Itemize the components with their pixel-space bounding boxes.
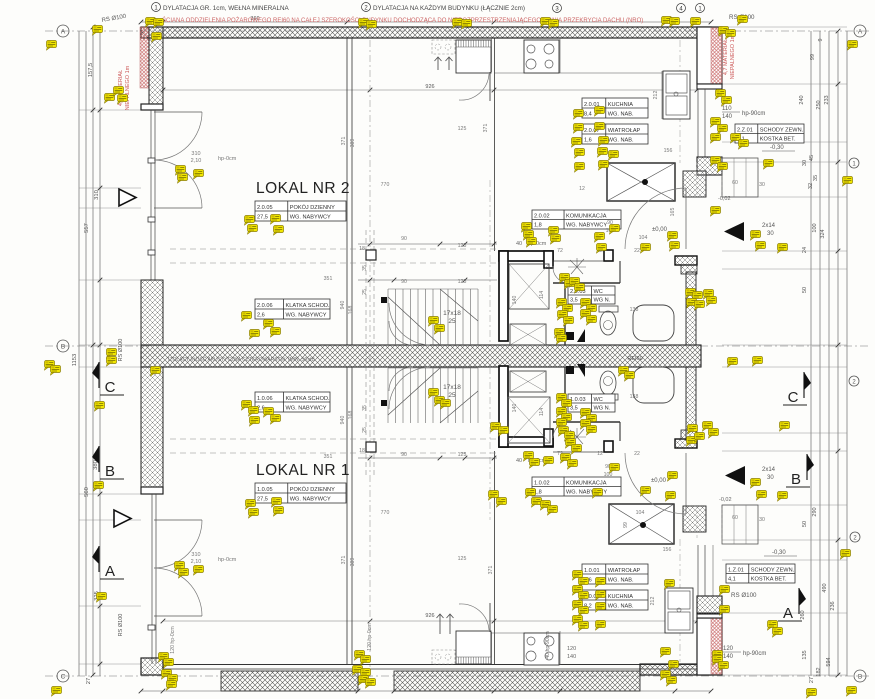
svg-text:770: 770 — [381, 510, 390, 516]
svg-text:27: 27 — [86, 678, 92, 684]
svg-text:WG. NABYWCY: WG. NABYWCY — [290, 215, 331, 221]
terrace hatch left — [221, 671, 358, 691]
svg-text:324: 324 — [820, 229, 826, 238]
right dimension lines — [810, 31, 812, 676]
svg-text:A: A — [105, 563, 115, 580]
svg-text:±0,00: ±0,00 — [651, 478, 667, 484]
svg-text:940: 940 — [340, 416, 346, 425]
entry door arc bottom — [625, 453, 686, 514]
svg-text:2.0.05: 2.0.05 — [257, 205, 273, 211]
svg-text:114: 114 — [539, 408, 545, 416]
section letter A left — [98, 546, 100, 572]
svg-text:17x18: 17x18 — [443, 384, 461, 391]
svg-text:125: 125 — [458, 126, 467, 132]
right wall block mid top — [697, 157, 722, 175]
svg-text:30: 30 — [759, 182, 765, 188]
stairs top winder — [389, 303, 430, 345]
dim line 926 top — [163, 89, 697, 91]
shaft xsquare top A — [509, 264, 549, 309]
svg-text:182: 182 — [816, 667, 822, 676]
bottom exterior wall thin — [163, 664, 711, 666]
left wall window top — [150, 110, 152, 280]
room label 2.0.07 wiatrolap — [582, 124, 648, 144]
dim line 926 bottom — [163, 620, 697, 622]
svg-text:157,5: 157,5 — [88, 63, 94, 78]
svg-text:DYLATACJA GR. 1cm, WEŁNA MINER: DYLATACJA GR. 1cm, WEŁNA MINERALNA — [163, 5, 290, 12]
svg-text:140: 140 — [722, 114, 733, 120]
svg-text:926: 926 — [425, 613, 434, 619]
svg-text:371: 371 — [483, 124, 489, 133]
svg-text:B: B — [61, 344, 65, 351]
window mullion b — [148, 625, 155, 630]
stair wall pier bottom — [604, 441, 613, 452]
door arc bottom center — [459, 604, 489, 630]
toilet top — [599, 306, 618, 312]
grid bubble A left — [57, 25, 69, 37]
sink bottom — [665, 588, 693, 633]
room label 1.0.02 komunikacja — [532, 477, 621, 496]
svg-text:371: 371 — [341, 137, 347, 146]
svg-text:594: 594 — [826, 657, 832, 666]
svg-text:C: C — [105, 379, 116, 396]
svg-text:27: 27 — [809, 677, 815, 683]
chimney bottom — [609, 504, 674, 544]
svg-text:490: 490 — [822, 583, 828, 592]
svg-text:25: 25 — [448, 392, 456, 399]
stairs bottom cut — [388, 368, 478, 423]
room label 2.0.03 wc — [568, 286, 615, 304]
right wall block bottom — [697, 618, 722, 675]
terrace hatch right — [394, 671, 640, 691]
svg-text:140: 140 — [512, 404, 518, 413]
svg-text:KOSTKA BET.: KOSTKA BET. — [760, 137, 796, 143]
shaft xsquare bottom A — [508, 397, 550, 443]
svg-text:±0,00: ±0,00 — [652, 227, 668, 233]
svg-text:NIEPALNEGO 1m: NIEPALNEGO 1m — [125, 65, 131, 110]
svg-text:35: 35 — [362, 405, 368, 411]
svg-text:1.0.03: 1.0.03 — [570, 397, 586, 403]
svg-text:138: 138 — [630, 394, 639, 400]
svg-text:90: 90 — [401, 279, 407, 285]
svg-text:770: 770 — [381, 182, 390, 188]
window mullion — [148, 158, 155, 163]
top exterior wall — [141, 27, 711, 38]
svg-text:240: 240 — [799, 95, 805, 104]
svg-text:2x14: 2x14 — [762, 467, 776, 473]
svg-text:27,5: 27,5 — [257, 497, 268, 503]
svg-text:25: 25 — [362, 289, 368, 295]
svg-text:35: 35 — [362, 265, 368, 271]
door arc bottom-left upper — [154, 520, 202, 568]
tub top — [633, 305, 674, 341]
svg-text:2,10: 2,10 — [191, 158, 202, 164]
svg-text:12: 12 — [579, 186, 585, 192]
bath wall top — [675, 256, 697, 265]
svg-text:KLATKA SCHOD.: KLATKA SCHOD. — [286, 303, 330, 309]
svg-text:30: 30 — [802, 160, 808, 166]
svg-text:SCHODY ZEWN.: SCHODY ZEWN. — [760, 128, 804, 134]
svg-text:POKÓJ DZIENNY: POKÓJ DZIENNY — [290, 204, 335, 211]
svg-text:POKÓJ DZIENNY: POKÓJ DZIENNY — [290, 486, 335, 493]
svg-text:371: 371 — [341, 556, 347, 565]
room label 1.0.07 kuchnia — [582, 590, 648, 610]
grid line C dashed — [45, 675, 870, 677]
svg-text:940: 940 — [340, 301, 346, 310]
right wall insulation bottom — [711, 618, 722, 674]
room label 2.0.05 pokoj dzienny — [255, 201, 346, 221]
grid bubble C left — [57, 670, 69, 682]
svg-text:-0,30: -0,30 — [770, 145, 784, 151]
section letter C right — [803, 372, 805, 398]
svg-text:WC: WC — [594, 397, 603, 403]
note 3 circle — [553, 4, 562, 13]
svg-text:212: 212 — [653, 91, 659, 100]
right extension lines — [722, 26, 847, 28]
plant bottom — [568, 428, 586, 444]
room label 2.0.02 komunikacja — [532, 210, 621, 229]
svg-text:18: 18 — [359, 448, 365, 454]
svg-text:140: 140 — [567, 654, 576, 660]
tub bottom — [633, 367, 674, 403]
svg-text:B: B — [791, 471, 801, 488]
stair sq marker bottom — [366, 442, 376, 452]
grid bubble A right — [854, 25, 866, 37]
stair column top — [381, 297, 387, 303]
svg-text:KUCHNIA: KUCHNIA — [608, 102, 633, 108]
yellow note markers — [146, 18, 156, 28]
hob top — [524, 40, 559, 73]
wc walls top — [553, 282, 620, 284]
svg-text:250: 250 — [816, 100, 822, 109]
grid line B dashed — [45, 345, 150, 347]
bath hatch right bottom — [686, 367, 696, 440]
skylight box top — [432, 40, 455, 54]
svg-text:9: 9 — [818, 38, 824, 41]
svg-text:125: 125 — [458, 556, 467, 562]
left dimension lines — [78, 31, 80, 676]
svg-text:LOKAL NR 2: LOKAL NR 2 — [256, 180, 350, 197]
svg-text:30: 30 — [759, 517, 765, 523]
left wall corner bottom — [141, 658, 163, 675]
svg-text:WG N.: WG N. — [594, 406, 611, 412]
right wall window top — [697, 89, 699, 157]
svg-text:SCHODY ZEWN.: SCHODY ZEWN. — [751, 568, 795, 574]
kitchen partition top — [494, 38, 496, 251]
svg-text:4,1: 4,1 — [728, 577, 736, 583]
svg-text:125: 125 — [458, 243, 467, 249]
section triangle open left bottom — [114, 510, 131, 527]
svg-text:30: 30 — [767, 475, 774, 481]
svg-text:140: 140 — [723, 654, 734, 660]
svg-text:WG. NABYWCY: WG. NABYWCY — [286, 313, 327, 319]
svg-text:KOMUNIKACJA: KOMUNIKACJA — [566, 481, 607, 487]
svg-text:1,6: 1,6 — [584, 138, 592, 144]
stair wall top step — [544, 251, 553, 268]
section letter C left — [98, 362, 100, 388]
wc thin bottom — [553, 451, 604, 453]
skylight box bottom — [432, 650, 455, 664]
room label 1.0.03 wc — [568, 394, 615, 412]
right wall cap bottom — [697, 613, 722, 618]
svg-text:4,7 MATERIAŁ: 4,7 MATERIAŁ — [723, 39, 729, 75]
grid bubble 1 right — [849, 158, 859, 168]
left wall insulation top — [140, 27, 149, 88]
svg-text:DYLATACJA NA KAŻDYM BUDYNKU (Ł: DYLATACJA NA KAŻDYM BUDYNKU (ŁĄCZNIE 2cm… — [373, 3, 525, 12]
counter line bottom — [456, 632, 665, 634]
partition living bottom — [346, 367, 348, 664]
dim chain mid top — [358, 243, 497, 245]
right wall window bottom — [697, 545, 699, 596]
svg-text:KOSTKA BET.: KOSTKA BET. — [751, 577, 787, 583]
svg-text:104: 104 — [639, 235, 648, 241]
room label 1.0.06 klatka schodowa — [255, 392, 330, 412]
svg-text:104: 104 — [636, 510, 645, 516]
svg-text:-0,02: -0,02 — [718, 196, 731, 202]
stair wall top horizontal — [499, 251, 553, 261]
top dimension chain — [141, 21, 711, 23]
svg-text:-0,02: -0,02 — [719, 497, 732, 503]
svg-text:REI60: REI60 — [627, 356, 642, 362]
ceiling dashes bottom — [170, 438, 497, 440]
svg-text:236: 236 — [830, 601, 836, 610]
svg-text:WG. NAB.: WG. NAB. — [608, 578, 634, 584]
left wall pier mid-top — [141, 280, 163, 345]
bath wall bottom — [675, 439, 697, 448]
svg-text:90: 90 — [401, 236, 407, 242]
svg-text:260: 260 — [800, 610, 806, 619]
stairs top cut — [388, 289, 478, 345]
svg-text:1.0.02: 1.0.02 — [534, 481, 550, 487]
wardrobe bottom — [456, 631, 491, 664]
window mullion — [148, 250, 155, 255]
svg-text:30: 30 — [767, 231, 774, 237]
dim chain mid top2 — [358, 279, 497, 281]
svg-text:371: 371 — [488, 566, 494, 575]
svg-text:17x18: 17x18 — [443, 310, 461, 317]
svg-text:40: 40 — [516, 458, 522, 464]
svg-text:-0,30: -0,30 — [772, 550, 786, 556]
svg-text:135: 135 — [802, 650, 808, 659]
svg-text:3,5: 3,5 — [570, 298, 578, 304]
svg-text:WG. NABYWCY: WG. NABYWCY — [286, 406, 327, 412]
svg-text:C: C — [61, 674, 66, 681]
svg-text:WG. NAB.: WG. NAB. — [608, 604, 634, 610]
svg-text:557: 557 — [84, 223, 90, 233]
right wall block mid bottom — [697, 596, 722, 614]
svg-text:NIEPALNEGO 1m: NIEPALNEGO 1m — [730, 34, 736, 79]
svg-text:310: 310 — [191, 151, 200, 157]
svg-text:B: B — [858, 674, 862, 681]
svg-text:351: 351 — [324, 276, 333, 282]
svg-text:212: 212 — [650, 597, 656, 606]
svg-text:138: 138 — [630, 307, 639, 313]
svg-text:165: 165 — [670, 208, 676, 217]
svg-text:156: 156 — [664, 148, 673, 154]
right wall block top — [697, 27, 722, 84]
svg-text:100: 100 — [812, 223, 818, 232]
svg-text:120: 120 — [567, 646, 576, 652]
svg-text:156: 156 — [663, 547, 672, 553]
vent arrows top — [435, 57, 442, 70]
svg-text:120 hp-0cm: 120 hp-0cm — [170, 626, 176, 653]
svg-text:90: 90 — [401, 452, 407, 458]
stair wall top vertical — [499, 251, 508, 341]
door arc bottom-left lower — [154, 568, 202, 616]
door arc top-left lower — [154, 160, 202, 208]
svg-text:hp-0cm: hp-0cm — [218, 557, 237, 563]
svg-text:50: 50 — [802, 287, 808, 293]
plant top — [568, 258, 586, 274]
svg-text:99: 99 — [623, 522, 629, 528]
left wall pier cap b — [141, 487, 163, 494]
svg-text:B: B — [105, 463, 115, 480]
svg-text:351: 351 — [324, 454, 333, 460]
svg-text:hp-90cm: hp-90cm — [742, 111, 765, 117]
svg-text:27,5: 27,5 — [257, 215, 268, 221]
note 2 circle — [362, 3, 371, 12]
section triangle open left top — [119, 189, 136, 206]
svg-text:2,6: 2,6 — [257, 313, 265, 319]
chimney bottom hatchblock — [683, 506, 706, 532]
svg-text:A: A — [783, 605, 793, 622]
bath hatch right top — [686, 272, 696, 345]
party wall REI60 — [141, 345, 701, 367]
door arc top-left upper — [154, 112, 202, 160]
wc door arc top — [553, 266, 567, 283]
left wall pier mid-bottom — [141, 367, 163, 487]
svg-text:C: C — [788, 389, 799, 406]
svg-text:110: 110 — [722, 106, 732, 112]
section triangle filled right top — [724, 222, 744, 241]
room label 2.0.06 klatka schodowa — [255, 299, 330, 319]
grid bubble 2 right — [850, 532, 860, 542]
chimney top hatchblock — [683, 171, 706, 197]
svg-text:A: A — [858, 29, 863, 36]
shaft square bottom — [566, 366, 574, 374]
axis dashed vertical — [369, 25, 371, 680]
svg-text:389: 389 — [350, 139, 356, 148]
shower top — [510, 324, 546, 345]
svg-text:1.0.05: 1.0.05 — [257, 487, 273, 493]
svg-text:140: 140 — [512, 296, 518, 305]
left wall pier top — [149, 27, 163, 104]
svg-text:125: 125 — [458, 452, 467, 458]
right wall insulation top — [711, 28, 722, 84]
stair wall pier top — [604, 250, 613, 261]
bottom wall right block — [640, 664, 711, 675]
left wall door jambs bottom — [151, 494, 153, 664]
wc thin top — [553, 260, 604, 262]
svg-text:LOKAL NR 1: LOKAL NR 1 — [256, 462, 350, 479]
stairs bottom winder — [389, 367, 430, 409]
svg-text:168: 168 — [348, 306, 354, 315]
svg-text:1,8: 1,8 — [534, 223, 542, 229]
partition living top — [346, 38, 348, 345]
counter line top — [494, 72, 662, 74]
svg-text:24: 24 — [802, 247, 808, 253]
stair wall bottom step — [544, 429, 553, 446]
stair sq marker top — [366, 250, 376, 260]
right wall cap top — [697, 84, 722, 89]
svg-text:WG. NABYWCY: WG. NABYWCY — [290, 497, 331, 503]
svg-text:2x14: 2x14 — [762, 223, 776, 229]
svg-text:1153: 1153 — [72, 354, 78, 366]
svg-text:114: 114 — [539, 291, 545, 299]
svg-text:RS Ø100: RS Ø100 — [118, 339, 124, 362]
svg-text:2,10: 2,10 — [191, 559, 202, 565]
room label 1.0.01 wiatrolap — [582, 564, 648, 584]
svg-text:WG. NAB.: WG. NAB. — [608, 112, 634, 118]
stair column bottom — [381, 400, 387, 406]
svg-text:22: 22 — [634, 248, 640, 254]
interior dim vchain — [365, 230, 367, 475]
svg-text:310: 310 — [191, 552, 200, 558]
shaft triangle bottom — [577, 364, 585, 377]
axis 4 circle — [677, 4, 686, 13]
svg-text:25: 25 — [448, 318, 456, 325]
svg-text:KOMUNIKACJA: KOMUNIKACJA — [566, 214, 607, 220]
door arc top center — [459, 74, 489, 100]
stairs bottom flight — [387, 368, 389, 423]
shower bottom — [510, 371, 546, 392]
svg-text:25: 25 — [362, 427, 368, 433]
grid bubble 2b right — [849, 376, 859, 386]
svg-text:2.Z.01: 2.Z.01 — [737, 128, 753, 134]
stair wall bottom horizontal — [499, 437, 553, 447]
entry opening top — [696, 162, 698, 197]
section letter B left — [98, 446, 100, 472]
wc walls bottom — [553, 421, 620, 423]
note 1 circle — [152, 3, 161, 12]
wardrobe top — [456, 40, 491, 73]
wc door arc bottom — [553, 422, 567, 438]
svg-text:40 hp-90cm: 40 hp-90cm — [545, 631, 551, 658]
room label 2.0.01 kuchnia — [582, 98, 648, 118]
svg-text:1.0.01: 1.0.01 — [584, 568, 600, 574]
stairs top flight — [387, 289, 389, 345]
svg-text:35: 35 — [813, 175, 819, 181]
dimension ticks — [98, 108, 103, 113]
svg-text:WG. NAB.: WG. NAB. — [608, 138, 634, 144]
svg-text:120: 120 — [723, 646, 734, 652]
svg-text:hp-90cm: hp-90cm — [743, 651, 766, 657]
axis dashed chimney — [679, 40, 681, 163]
kitchen partition bottom — [494, 451, 496, 664]
svg-text:2.0.06: 2.0.06 — [257, 303, 273, 309]
svg-text:ŚCIANA ODDZIELENIA POŻAROWEGO: ŚCIANA ODDZIELENIA POŻAROWEGO REI60 NA C… — [162, 16, 643, 24]
grid bubble B left — [57, 340, 69, 352]
window mullion — [148, 217, 155, 222]
svg-text:168: 168 — [348, 411, 354, 420]
svg-text:60: 60 — [732, 515, 738, 521]
svg-text:IZOLACYJNOŚĆ AKUSTYCZNA CZTERO: IZOLACYJNOŚĆ AKUSTYCZNA CZTEROWARSTW. (M… — [168, 355, 315, 363]
svg-text:A: A — [61, 29, 66, 36]
porch steps bottom — [722, 505, 758, 544]
bottom dimension chain — [141, 690, 711, 692]
svg-text:WG. NABYWCY: WG. NABYWCY — [566, 223, 607, 229]
svg-text:125: 125 — [458, 279, 467, 285]
svg-text:WIATROŁAP: WIATROŁAP — [608, 128, 641, 134]
shaft triangle top — [577, 329, 585, 342]
svg-text:99: 99 — [810, 54, 816, 60]
section letter B right — [806, 454, 808, 480]
svg-text:60: 60 — [732, 180, 738, 186]
svg-text:8,4: 8,4 — [584, 112, 592, 118]
svg-text:1.Z.01: 1.Z.01 — [728, 568, 744, 574]
entry door arc top — [625, 188, 686, 249]
room label 1.Z.01 schody zewn — [726, 564, 795, 583]
svg-text:22: 22 — [634, 451, 640, 457]
